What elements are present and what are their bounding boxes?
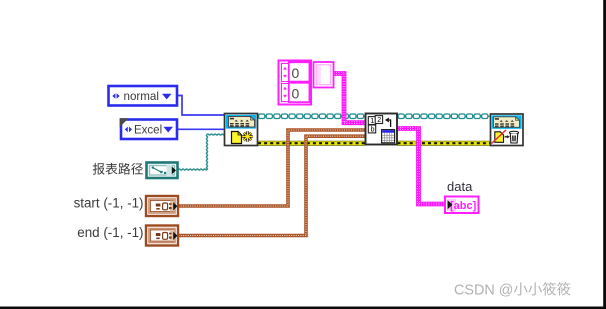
label 报表路径 (93, 163, 143, 175)
svg-text:end (-1, -1): end (-1, -1) (77, 225, 143, 240)
string array constant (0,0) (279, 61, 312, 105)
wire: end cluster to Excel Get Data (brown) (179, 136, 366, 235)
wire: report refnum chain New Report to Excel Get Data (258, 114, 365, 119)
path control 报表路径 (147, 163, 178, 179)
svg-text:2: 2 (377, 117, 381, 124)
wire: error cluster Excel Get Data to Dispose Report (398, 141, 491, 146)
wire: path 报表路径 to New Report (teal squiggle) (179, 134, 225, 170)
svg-text:Excel: Excel (134, 125, 162, 137)
wire: string array constant to Excel Get Data (pink coil) (334, 73, 366, 124)
wire: enum Excel to New Report (blue) (178, 128, 225, 130)
empty string constant (314, 62, 334, 88)
svg-text:0: 0 (292, 85, 300, 101)
VI icon: Dispose Report.vi (491, 114, 524, 146)
string array indicator data (445, 197, 479, 214)
enum constant "Excel" (120, 118, 177, 139)
wire: Excel Get Data to data indicator (pink coil) (398, 128, 447, 205)
enum constant "normal" (109, 86, 178, 106)
watermark CSDN @小小筱筱 (454, 282, 571, 298)
svg-text:start (-1, -1): start (-1, -1) (74, 196, 144, 211)
VI icon: New Report.vi (225, 114, 258, 146)
VI icon: Excel Get Data.vi (366, 114, 398, 145)
cluster control start (146, 196, 178, 216)
svg-text:CSDN @: CSDN @ (454, 282, 513, 298)
svg-text:b: b (371, 127, 375, 134)
wire: enum normal to New Report (blue) (178, 96, 225, 116)
wire: report refnum chain Excel Get Data to Dispose Report (398, 114, 491, 119)
svg-text:1: 1 (370, 118, 374, 125)
svg-text:0: 0 (292, 65, 300, 81)
svg-text:data: data (447, 179, 473, 194)
svg-text:normal: normal (124, 90, 159, 103)
wire: error cluster New Report to Excel Get Data (258, 141, 365, 146)
cluster control end (146, 226, 178, 246)
wire: start cluster to Excel Get Data (brown) (179, 130, 366, 206)
svg-text:[abc]: [abc] (450, 200, 477, 212)
